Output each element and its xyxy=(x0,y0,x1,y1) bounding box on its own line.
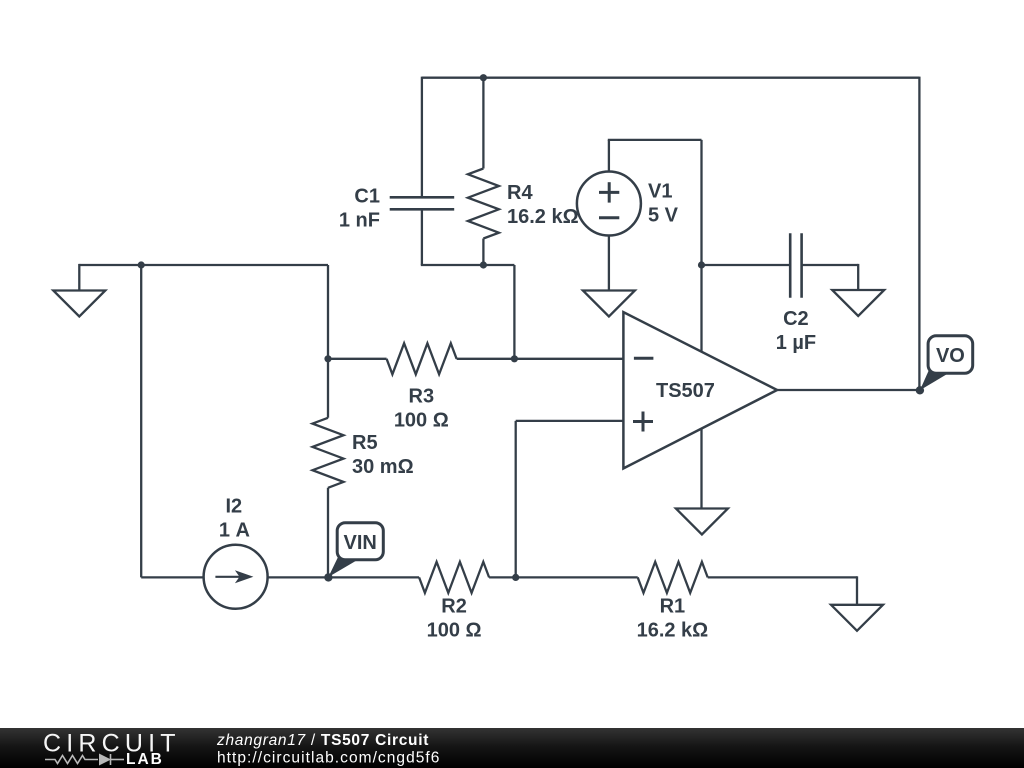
wire C1/R4 bottom rail xyxy=(421,264,515,266)
svg-text:100 Ω: 100 Ω xyxy=(427,620,482,642)
node top-left rail / I2 branch junction xyxy=(138,261,145,268)
svg-text:I2: I2 xyxy=(225,495,242,517)
wire C2 left lead xyxy=(702,264,791,266)
voltage source V1 xyxy=(577,172,641,236)
resistor R3 xyxy=(387,343,457,374)
wire R3 left lead xyxy=(328,358,387,360)
svg-text:C1: C1 xyxy=(354,186,380,208)
resistor R1 xyxy=(638,562,708,593)
svg-text:1 A: 1 A xyxy=(219,519,250,541)
svg-text:5 V: 5 V xyxy=(648,205,679,227)
svg-text:VIN: VIN xyxy=(344,532,377,554)
node top rail / R4 junction xyxy=(480,74,487,81)
ground R1 xyxy=(831,605,883,631)
wire V1 top lead xyxy=(608,140,610,172)
wire R4 top lead xyxy=(482,78,484,169)
wire op-amp negative supply pin xyxy=(700,428,702,509)
wire bottom rail R2 left xyxy=(328,576,419,578)
svg-text:C2: C2 xyxy=(783,308,809,330)
wire top-left vertical to C1 xyxy=(421,77,423,198)
svg-text:100 Ω: 100 Ω xyxy=(394,410,449,432)
wire top rail xyxy=(422,77,920,79)
wire right vertical (feedback to VO) xyxy=(918,77,920,391)
ground top-left xyxy=(53,291,105,317)
svg-text:R4: R4 xyxy=(507,182,533,204)
current source I2 xyxy=(204,545,268,609)
svg-text:R1: R1 xyxy=(660,596,686,618)
wire top-left ground rail xyxy=(79,264,328,266)
wire op-amp output xyxy=(777,389,920,391)
resistor R4 xyxy=(468,169,499,239)
wire non-inverting input xyxy=(516,420,624,422)
svg-text:TS507: TS507 xyxy=(656,380,715,402)
wire R1 right lead xyxy=(708,576,857,578)
wire R4 bottom lead xyxy=(482,239,484,266)
wire bottom rail R2-R1 xyxy=(489,576,638,578)
wire ground stem top-left xyxy=(78,264,80,291)
wire C1 bottom lead xyxy=(421,209,423,265)
svg-text:16.2 kΩ: 16.2 kΩ xyxy=(507,206,579,228)
svg-text:R5: R5 xyxy=(352,432,378,454)
wire R1 ground stem xyxy=(856,576,858,605)
svg-text:VO: VO xyxy=(936,345,965,367)
resistor R5 xyxy=(313,418,344,488)
wire I2 right lead xyxy=(268,576,329,578)
node VIN junction xyxy=(324,573,332,581)
capacitor C1 xyxy=(390,196,455,199)
wire vertical loop to inverting input xyxy=(513,265,515,359)
wire I2 left lead xyxy=(141,576,204,578)
capacitor C2 xyxy=(789,233,792,297)
svg-text:R3: R3 xyxy=(409,386,435,408)
node R2/R1 non-inverting junction xyxy=(512,574,519,581)
node VO flag xyxy=(920,371,948,391)
node inverting input junction xyxy=(511,355,518,362)
svg-text:LAB: LAB xyxy=(126,751,164,768)
wire op-amp supply pin xyxy=(700,265,702,352)
svg-text:1 µF: 1 µF xyxy=(776,332,816,354)
svg-text:1 nF: 1 nF xyxy=(339,210,380,232)
svg-text:zhangran17 / TS507 Circuit: zhangran17 / TS507 Circuit xyxy=(216,732,429,749)
wire V1 rail vertical to op-amp supply xyxy=(700,140,702,265)
op-amp U1 TS507 xyxy=(623,312,777,468)
node C1/R4 bottom junction xyxy=(480,261,487,268)
wire V1 positive rail xyxy=(608,139,702,141)
node R3/R5 junction xyxy=(324,355,331,362)
wire R3 right lead to inverting input xyxy=(457,358,624,360)
node VIN flag xyxy=(328,558,356,578)
wire V1 bottom lead to ground xyxy=(608,236,610,291)
wire C2 ground stem xyxy=(857,264,859,290)
ground V1 xyxy=(583,291,635,317)
wire C2 right lead xyxy=(802,264,859,266)
svg-text:R2: R2 xyxy=(441,596,467,618)
node VO junction xyxy=(916,386,924,394)
ground C2 xyxy=(832,290,884,316)
wire I2 left vertical xyxy=(140,265,142,577)
wire non-inverting vertical xyxy=(515,421,517,578)
wire R5 bottom lead xyxy=(327,488,329,578)
ground op-amp negative supply xyxy=(676,509,728,535)
svg-text:30 mΩ: 30 mΩ xyxy=(352,456,414,478)
svg-text:16.2 kΩ: 16.2 kΩ xyxy=(637,620,709,642)
svg-text:http://circuitlab.com/cngd5f6: http://circuitlab.com/cngd5f6 xyxy=(217,750,440,767)
wire R5 vertical top lead xyxy=(327,265,329,418)
resistor R2 xyxy=(419,562,489,593)
CircuitLab logo resistor-diode glyph xyxy=(45,754,124,765)
node V1 rail / C2 / op-amp supply junction xyxy=(698,261,705,268)
svg-text:V1: V1 xyxy=(648,181,672,203)
